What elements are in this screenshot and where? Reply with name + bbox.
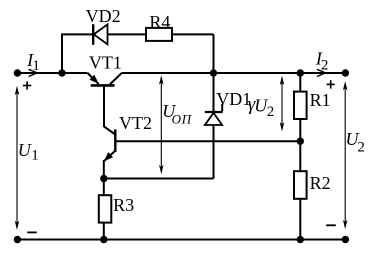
svg-text:2: 2 xyxy=(357,140,365,156)
svg-text:VT1: VT1 xyxy=(89,52,122,72)
svg-text:R4: R4 xyxy=(149,12,170,32)
svg-text:R3: R3 xyxy=(113,195,134,215)
svg-text:U: U xyxy=(18,140,32,160)
svg-text:R2: R2 xyxy=(310,173,331,193)
svg-text:ОП: ОП xyxy=(172,112,193,127)
svg-text:1: 1 xyxy=(31,148,39,164)
svg-text:2: 2 xyxy=(267,104,275,120)
svg-text:VT2: VT2 xyxy=(119,113,152,133)
svg-text:VD1: VD1 xyxy=(216,89,251,109)
svg-text:2: 2 xyxy=(321,57,329,73)
svg-text:1: 1 xyxy=(32,58,40,74)
svg-text:R1: R1 xyxy=(310,90,331,110)
svg-text:VD2: VD2 xyxy=(86,6,121,26)
